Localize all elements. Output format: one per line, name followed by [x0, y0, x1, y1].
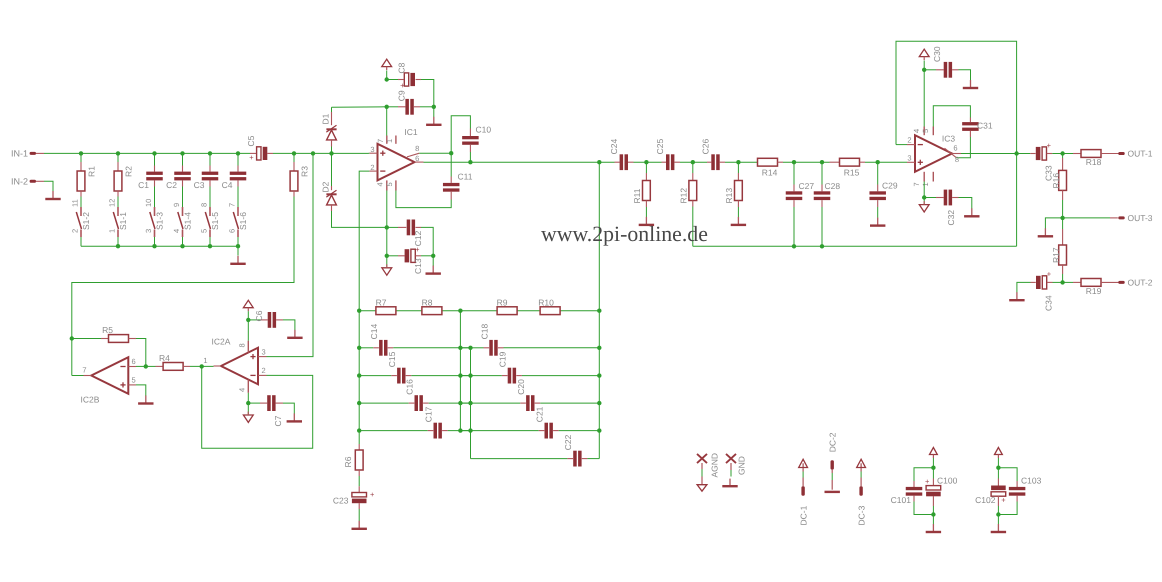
- port IN-2: [11, 177, 44, 187]
- switch S1-4: [172, 203, 193, 237]
- wire row C17 right: [442, 430, 470, 432]
- wire R12 down to gnd rail: [692, 207, 694, 247]
- wire gnd rail: [693, 245, 1017, 247]
- resistor R13: [724, 162, 742, 217]
- wire C12 node to C13: [386, 227, 388, 255]
- svg-text:C27: C27: [799, 181, 815, 191]
- wire OUT-2 node to R19: [1063, 281, 1073, 283]
- svg-text:C30: C30: [932, 46, 942, 62]
- wire C31 to pin8: [957, 137, 971, 158]
- junction C30 node: [922, 68, 926, 72]
- svg-text:C7: C7: [273, 415, 283, 426]
- svg-text:C16: C16: [405, 379, 415, 395]
- ground IN-2: [45, 191, 60, 199]
- svg-text:C14: C14: [369, 324, 379, 340]
- wire rail to ground: [237, 246, 239, 255]
- wire ladder left rail: [358, 311, 360, 444]
- wire R14 to R15: [783, 161, 830, 163]
- svg-text:+: +: [925, 477, 930, 486]
- wire pin8 node down to C11: [450, 153, 452, 176]
- supply pin DC-2: [825, 432, 840, 492]
- wire VEE stem IC1: [386, 256, 388, 268]
- wire IN-1 to IC2A pin3 riser: [267, 153, 314, 356]
- wire VEE stem IC2A: [247, 403, 249, 415]
- wire arrow to C102 top: [997, 458, 999, 468]
- svg-text:C5: C5: [246, 135, 256, 146]
- svg-text:4: 4: [376, 182, 385, 186]
- wire C27 down: [793, 207, 795, 246]
- capacitor C13: [387, 245, 423, 274]
- svg-text:1: 1: [203, 356, 207, 365]
- svg-text:R17: R17: [1051, 247, 1061, 263]
- svg-text:3: 3: [370, 145, 374, 154]
- wire IC3 pin5 to C31: [933, 106, 970, 127]
- wire IC2A pin8 up: [247, 320, 249, 341]
- svg-text:OUT-1: OUT-1: [1128, 149, 1153, 159]
- junction C6 node: [246, 318, 250, 322]
- svg-text:8: 8: [955, 155, 959, 164]
- wire row C14 right: [388, 347, 471, 349]
- svg-text:C26: C26: [701, 139, 711, 155]
- wire IC1 pin4 down: [386, 191, 388, 228]
- capacitor C11: [443, 172, 473, 200]
- wire row C21 right: [553, 430, 599, 432]
- capacitor C34: [1031, 270, 1054, 311]
- wire C2 top lead: [182, 153, 184, 165]
- ground switch rail: [230, 256, 245, 264]
- junction R12 node: [691, 160, 695, 164]
- wire IC2B pin7: [72, 375, 84, 377]
- capacitor C103: [1009, 476, 1042, 502]
- svg-text:7: 7: [912, 182, 921, 186]
- junctions switch rail: [116, 244, 240, 248]
- resistor R14: [758, 158, 784, 177]
- wire S1-2 bottom: [80, 237, 82, 246]
- wire C4 bottom lead: [237, 187, 239, 208]
- ground under C13: [426, 266, 441, 274]
- svg-text:R18: R18: [1086, 157, 1102, 167]
- wire VCC to C8 node: [386, 71, 388, 80]
- resistor R6: [343, 444, 363, 476]
- svg-text:C28: C28: [825, 181, 841, 191]
- svg-text:IC3: IC3: [942, 134, 956, 144]
- wire C25 to C26: [680, 161, 707, 163]
- svg-text:2: 2: [370, 163, 374, 172]
- svg-text:7: 7: [82, 366, 86, 375]
- junction OUT-3 node: [1060, 216, 1064, 220]
- junction OUT-2 node: [1060, 280, 1064, 284]
- svg-text:6: 6: [132, 357, 136, 366]
- capacitor C100: [925, 468, 958, 515]
- power arrow C100: [930, 448, 938, 459]
- wire C9 right to node: [420, 106, 434, 108]
- wire arrow to C100 top: [932, 458, 934, 468]
- power arrow C102: [995, 448, 1003, 459]
- resistor R5: [72, 325, 136, 342]
- wire C2 bottom lead: [182, 187, 184, 208]
- svg-text:3: 3: [262, 347, 266, 356]
- ground under C100: [926, 524, 941, 532]
- capacitor C29: [869, 162, 897, 218]
- wire C10 to output: [469, 152, 471, 162]
- wire C34 left to ground: [1017, 282, 1031, 292]
- junction C102 bottom: [996, 512, 1000, 516]
- resistor R10: [538, 298, 560, 315]
- svg-text:5: 5: [132, 375, 136, 384]
- svg-text:1: 1: [107, 229, 116, 233]
- wire C101 branch: [914, 468, 933, 515]
- power VCC arrow IC2A: [243, 300, 253, 311]
- wire row C15 left: [359, 375, 397, 377]
- capacitor C28: [814, 162, 841, 207]
- svg-text:C25: C25: [655, 139, 665, 155]
- supply pin DC-3: [857, 459, 867, 525]
- wire S1-5 bottom: [209, 237, 211, 246]
- svg-text:IN-1: IN-1: [11, 149, 28, 159]
- wire pin8 node to C10: [451, 116, 470, 153]
- watermark text: [541, 222, 708, 246]
- svg-text:5: 5: [385, 182, 394, 186]
- capacitor C26: [701, 139, 726, 171]
- svg-text:S1-1: S1-1: [118, 212, 128, 230]
- wire row C19 right: [516, 375, 599, 377]
- svg-text:DC-1: DC-1: [799, 505, 809, 525]
- junctions C12 C13: [385, 225, 436, 258]
- wire IC1 output: [424, 161, 615, 163]
- ground OUT-3: [1038, 228, 1053, 236]
- wire C102 to ground: [997, 515, 999, 525]
- capacitor C23: [333, 486, 375, 509]
- capacitor C25: [655, 139, 680, 171]
- junction C29 node: [876, 160, 880, 164]
- svg-text:S1-4: S1-4: [183, 212, 193, 230]
- capacitor C102: [975, 468, 1006, 515]
- svg-text:R11: R11: [632, 188, 642, 203]
- wire row C20 right: [535, 402, 600, 404]
- wire C23 to ground: [358, 509, 360, 521]
- svg-text:IC1: IC1: [404, 127, 418, 137]
- wire C32 to ground: [959, 198, 972, 209]
- wire chain to ladder riser: [598, 162, 600, 311]
- op-amp IC2A: [203, 337, 266, 393]
- junction OUT-1 node: [1060, 151, 1064, 155]
- junction C10 output: [468, 160, 472, 164]
- svg-text:4: 4: [912, 129, 921, 133]
- svg-text:OUT-2: OUT-2: [1128, 278, 1153, 288]
- svg-text:C102: C102: [975, 495, 996, 505]
- svg-text:4: 4: [172, 229, 181, 233]
- svg-text:R3: R3: [300, 166, 310, 177]
- port IN-1: [11, 149, 44, 159]
- capacitor C24: [609, 139, 634, 171]
- ground under R11: [639, 217, 654, 225]
- wire R2 to S1-1: [117, 197, 119, 208]
- svg-text:1: 1: [921, 182, 930, 186]
- svg-text:8: 8: [238, 343, 247, 347]
- junction R13 node: [736, 160, 740, 164]
- port OUT-3: [1118, 213, 1153, 223]
- wire row C20 left: [471, 402, 526, 404]
- svg-text:C9: C9: [397, 90, 407, 101]
- svg-text:D1: D1: [321, 113, 331, 124]
- capacitor C31: [962, 118, 993, 138]
- capacitor C10: [462, 125, 491, 152]
- resistor R1: [77, 162, 96, 197]
- svg-text:C8: C8: [397, 62, 407, 73]
- wire R1 top lead: [80, 153, 82, 162]
- capacitor C9: [387, 90, 420, 115]
- wire C13 right: [421, 255, 433, 257]
- switch S1-3: [144, 199, 165, 237]
- capacitor C8: [387, 62, 421, 90]
- wire ladder top rail: [359, 310, 599, 312]
- svg-text:D2: D2: [321, 181, 331, 192]
- svg-text:S1-2: S1-2: [81, 212, 91, 230]
- capacitor C20: [516, 379, 534, 411]
- svg-text:R2: R2: [124, 166, 134, 177]
- svg-text:IC2A: IC2A: [212, 337, 231, 347]
- ground under C7: [287, 413, 302, 421]
- svg-text:C29: C29: [882, 181, 898, 191]
- power VEE arrow IC2A: [243, 412, 253, 423]
- switch S1-6: [227, 203, 248, 237]
- ground under C32: [964, 208, 979, 216]
- wire C1 top lead: [154, 153, 156, 165]
- wire C11 to pin5 loop: [396, 191, 451, 208]
- resistor R8: [422, 298, 442, 315]
- switch S1-5: [199, 203, 220, 237]
- wire R6 to C23: [358, 476, 360, 486]
- svg-text:9: 9: [172, 203, 181, 207]
- svg-text:2: 2: [907, 136, 911, 145]
- wire IC1 pin2 to ladder: [359, 171, 369, 311]
- wire ladder mid-left rail: [459, 311, 461, 431]
- wire VCC to C6 node: [247, 311, 249, 320]
- svg-text:7: 7: [376, 139, 385, 143]
- op-amp IC1: [369, 127, 423, 191]
- svg-text:S1-6: S1-6: [238, 212, 248, 230]
- capacitor C5: [246, 135, 273, 161]
- wire C26 to R14: [725, 161, 757, 163]
- wire R4 to IC2A: [190, 365, 214, 367]
- wire VEE stem IC3: [923, 198, 925, 205]
- resistor R16: [1051, 154, 1067, 218]
- svg-text:R7: R7: [376, 298, 387, 308]
- svg-text:IN-2: IN-2: [11, 177, 28, 187]
- wire R1 to S1-2: [80, 197, 82, 208]
- junction R5 node: [70, 336, 74, 340]
- wire D2 to C12 node: [332, 211, 387, 227]
- wire C24 to C25: [634, 161, 662, 163]
- capacitor C12: [387, 220, 423, 247]
- wire IC1 pin3: [368, 152, 371, 154]
- svg-text:S1-3: S1-3: [155, 212, 165, 230]
- wire IC3 pin2 to box: [896, 144, 907, 146]
- svg-text:S1-5: S1-5: [210, 212, 220, 230]
- svg-text:R8: R8: [422, 298, 433, 308]
- svg-text:C17: C17: [424, 406, 434, 422]
- wire row C22 left: [471, 458, 574, 460]
- svg-text:C1: C1: [138, 180, 149, 190]
- power VCC arrow IC3: [919, 49, 929, 60]
- resistor R7: [376, 298, 396, 315]
- wire IC1 pin8 row: [419, 152, 451, 154]
- wire D2 top: [331, 153, 333, 186]
- wire rows gap segments: [460, 348, 470, 431]
- wire row C14 left: [359, 347, 379, 349]
- wire row C16 right: [423, 402, 470, 404]
- capacitor C33: [1030, 141, 1053, 181]
- junction C100 top: [931, 466, 935, 470]
- wire row C15 right: [406, 375, 471, 377]
- svg-text:2: 2: [262, 366, 266, 375]
- svg-text:C101: C101: [891, 495, 912, 505]
- wire VCC to C30 node: [923, 61, 925, 70]
- svg-text:C34: C34: [1043, 295, 1053, 311]
- resistor R12: [678, 162, 696, 206]
- wire C34 to OUT-2 node: [1053, 281, 1063, 283]
- wire ladder mid-right rail: [470, 348, 472, 459]
- svg-text:C6: C6: [254, 310, 264, 321]
- wire S1-3 bottom: [154, 237, 156, 246]
- svg-text:C23: C23: [333, 496, 349, 506]
- wire OUT-3 right: [1063, 217, 1118, 219]
- resistor R2: [114, 162, 133, 197]
- wire row C21 left: [471, 430, 545, 432]
- wire S1-1 bottom: [117, 237, 119, 246]
- wire C3 bottom lead: [209, 187, 211, 208]
- svg-text:C3: C3: [194, 180, 205, 190]
- junctions gnd rail: [792, 244, 824, 248]
- wire C9 row to D1: [332, 106, 387, 108]
- op-amp IC2B: [81, 357, 136, 405]
- svg-text:www.2pi-online.de: www.2pi-online.de: [541, 222, 708, 246]
- capacitor C2: [166, 166, 191, 190]
- svg-text:R4: R4: [159, 353, 170, 363]
- svg-text:R13: R13: [724, 188, 734, 204]
- svg-text:8: 8: [415, 144, 419, 153]
- wire R15 to IC3: [865, 161, 907, 163]
- capacitor C21: [535, 406, 553, 438]
- wire C1 bottom lead: [154, 187, 156, 208]
- wire C13 node to ground: [432, 256, 434, 266]
- junction R11 node: [644, 160, 648, 164]
- junctions ladder right rail: [597, 346, 601, 433]
- net symbol AGND: [697, 453, 720, 491]
- wire C30 node to IC3 pin4: [923, 70, 925, 127]
- svg-text:+: +: [415, 245, 420, 254]
- wire row C22 right: [582, 458, 600, 460]
- wire S1-4 bottom: [182, 237, 184, 246]
- svg-text:6: 6: [415, 154, 419, 163]
- wire C28 down: [821, 207, 823, 246]
- svg-text:5: 5: [199, 229, 208, 233]
- wire C30 to ground: [959, 70, 971, 80]
- resistor R9: [497, 298, 518, 315]
- capacitor C27: [786, 162, 815, 207]
- svg-text:C32: C32: [946, 210, 956, 226]
- svg-text:C20: C20: [516, 379, 526, 395]
- wire R5 to R4 node: [136, 339, 146, 367]
- wire row C18 left: [471, 347, 490, 349]
- wire C4 top lead: [237, 153, 239, 165]
- resistor R3: [290, 153, 309, 196]
- svg-text:11: 11: [70, 199, 79, 207]
- port OUT-1: [1118, 149, 1153, 159]
- svg-text:6: 6: [227, 229, 236, 233]
- ground under C102: [991, 524, 1006, 532]
- wire C103 branch: [998, 468, 1017, 515]
- svg-text:R15: R15: [844, 167, 860, 177]
- capacitor C1: [138, 166, 163, 190]
- svg-text:4: 4: [238, 388, 247, 392]
- svg-text:DC-2: DC-2: [828, 432, 838, 452]
- svg-text:+: +: [1047, 270, 1052, 279]
- wire C8 right to ground node: [421, 80, 434, 107]
- wire IC2B output riser: [71, 339, 73, 376]
- wire ladder right rail: [598, 311, 600, 459]
- svg-text:C100: C100: [937, 476, 958, 486]
- wire net IN-1 main: [44, 152, 369, 154]
- junction chain riser: [597, 160, 601, 164]
- wire C7 to ground: [283, 403, 294, 413]
- capacitor C3: [194, 166, 219, 190]
- capacitor C15: [387, 351, 405, 383]
- svg-text:+: +: [1001, 495, 1006, 504]
- wire row C19 left: [471, 375, 508, 377]
- junction IC3 out box: [1014, 151, 1018, 155]
- svg-text:R5: R5: [102, 325, 113, 335]
- supply pin DC-1: [799, 459, 809, 525]
- svg-text:C22: C22: [563, 434, 573, 450]
- junction C32 node: [922, 195, 926, 199]
- svg-text:1: 1: [385, 139, 394, 143]
- svg-text:7: 7: [227, 203, 236, 207]
- wire IC3 output: [961, 153, 1030, 155]
- wire C12 right down: [421, 227, 433, 255]
- svg-text:3: 3: [907, 153, 911, 162]
- resistor R19: [1073, 279, 1119, 297]
- wire IC2A pin4 down: [247, 393, 249, 403]
- ground under C30: [963, 80, 978, 88]
- junction C28 node: [820, 160, 824, 164]
- junctions IN-1 line: [79, 151, 334, 155]
- power VCC arrow IC1: [382, 59, 392, 70]
- svg-text:+: +: [400, 81, 405, 90]
- junctions C8 C9: [385, 77, 436, 109]
- capacitor C6: [248, 310, 283, 328]
- resistor R4: [146, 353, 190, 370]
- junction pin8 node: [449, 151, 453, 155]
- wire R3 down to IC2 row: [72, 197, 294, 339]
- wire switch bottom rail: [81, 245, 238, 247]
- resistor R18: [1073, 150, 1119, 167]
- capacitor C19: [498, 351, 516, 383]
- svg-text:C15: C15: [387, 351, 397, 367]
- svg-text:AGND: AGND: [710, 453, 720, 478]
- wire IC2B pin6: [136, 365, 146, 367]
- ground under C34: [1009, 292, 1024, 300]
- junction C102 top: [996, 466, 1000, 470]
- ground under R13: [731, 217, 746, 225]
- wire row C16 left: [359, 402, 414, 404]
- resistor R17: [1051, 218, 1067, 283]
- capacitor C7: [248, 395, 283, 426]
- wire C3 top lead: [209, 153, 211, 165]
- resistor R15: [830, 158, 866, 177]
- svg-text:R16: R16: [1051, 173, 1061, 189]
- svg-text:5: 5: [921, 129, 930, 133]
